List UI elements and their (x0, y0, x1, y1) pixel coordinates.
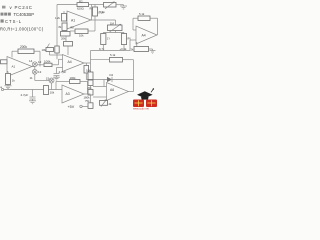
resistor R2 620 (feedback of top op-amp) (57, 0, 95, 20)
input resistor (left edge, inverting input of A1) (1, 60, 8, 64)
wires to A6 inputs (93, 87, 107, 98)
svg-text:v PC24C: v PC24C (10, 5, 33, 10)
resistor 1.2k (top op-amp - input) (55, 11, 67, 21)
op-amp A6 (bottom right) (107, 83, 134, 101)
divider chain labels 180k 75k (84, 95, 91, 102)
svg-text:13: 13 (38, 70, 42, 74)
resistor 5.1k (top right horizontal) (133, 12, 158, 35)
trimmer 2k (below A6) (100, 100, 113, 107)
ground (right of top trimmer) (116, 5, 127, 9)
wire A2 + input (124, 40, 137, 51)
svg-text:10k: 10k (50, 90, 55, 94)
svg-text:TC4053BP: TC4053BP (14, 12, 35, 17)
svg-text:www.ccdz.net: www.ccdz.net (133, 107, 149, 110)
watermark logo: red characters (133, 100, 157, 108)
resistor 10k (on bottom rail) (44, 86, 55, 95)
svg-text:5.1k: 5.1k (110, 53, 116, 57)
svg-text:12: 12 (38, 60, 42, 64)
svg-text:A6: A6 (110, 88, 114, 92)
svg-text:14: 14 (29, 59, 33, 63)
+5V supply label and terminal (68, 105, 89, 109)
vertical feed line (x57) (56, 5, 58, 47)
watermark logo: black cap (137, 88, 154, 99)
svg-text:1.2k: 1.2k (55, 16, 61, 20)
svg-text:+5V: +5V (68, 105, 75, 109)
svg-text:620Ω: 620Ω (77, 7, 84, 11)
analog switch 14 (29, 59, 42, 67)
resistor 10k (A5 output down) (84, 63, 89, 80)
divider chain resistor bottom (88, 95, 93, 108)
analog switch 13 (32, 67, 41, 75)
wire A3 output (84, 93, 91, 95)
svg-text:10k: 10k (42, 48, 47, 52)
svg-text:D4: D4 (110, 73, 114, 77)
resistor 20k second (series) (64, 36, 73, 55)
note line 3: CTS-L (1, 19, 23, 24)
wire A1 output (32, 66, 35, 68)
bottom rail of reference divider (91, 50, 125, 52)
wire to 1M trimmer (95, 20, 116, 25)
ground (below mid cap) (53, 76, 60, 80)
divider chain resistor 2k (88, 86, 93, 96)
resistor 1k (A1 + input to ground) (6, 74, 16, 85)
svg-text:5.1k: 5.1k (100, 10, 106, 14)
resistor 5.1k (middle) (91, 53, 134, 91)
divider chain resistor 10k (86, 68, 93, 79)
trimmer 1M (103, 21, 124, 32)
svg-text:A3: A3 (66, 92, 70, 96)
svg-text:10k: 10k (79, 33, 84, 37)
svg-text:75k: 75k (85, 99, 90, 103)
svg-text:4.7µF: 4.7µF (21, 93, 29, 97)
op-amp A5 (middle) (63, 55, 85, 72)
svg-text:1Y: 1Y (107, 38, 110, 41)
wire A1 + input (7, 72, 8, 74)
op-amp A3 (bottom middle) (62, 85, 84, 103)
svg-text:20k: 20k (61, 36, 66, 40)
svg-text:15: 15 (46, 77, 50, 81)
resistor 100k (to A5 input) (37, 59, 62, 66)
diode D4 (feedback line) (86, 73, 133, 87)
note line 1: sensor type PC24C (2, 5, 33, 10)
svg-text:11: 11 (30, 76, 33, 80)
svg-text:A4: A4 (142, 34, 146, 38)
divider chain resistor 20k (87, 80, 93, 90)
capacitor 4.7uF (mid) (54, 70, 67, 76)
op-amp A1 (top middle) (67, 11, 91, 29)
op-amp A2 (top right) (136, 26, 157, 44)
resistor 2k (below A2) (131, 47, 153, 52)
resistor 8k (top op-amp + input) (59, 23, 68, 31)
svg-text:A1: A1 (12, 65, 16, 69)
note line 2: device TC4053BP (1, 12, 35, 17)
trimmer 10k (left of A5) (42, 44, 63, 56)
resistor 20k (below top op-amp) (61, 31, 71, 41)
svg-text:A1: A1 (71, 18, 75, 22)
trimmer 5.1k (top right) (95, 2, 116, 14)
wire A5 output (84, 51, 91, 73)
svg-text:4.7µF: 4.7µF (59, 70, 67, 74)
ground (below 1k) (5, 85, 12, 89)
ground (below bottom cap) (29, 99, 36, 104)
svg-text:R0,Rt=1.000(100°C): R0,Rt=1.000(100°C) (0, 26, 44, 31)
resistor (x57 series) (55, 46, 59, 59)
op-amp A1 (7, 57, 32, 77)
resistor 9.7k (left vertical) (99, 33, 110, 51)
resistor 0.1k (vertical near output) (93, 5, 105, 21)
ground (right of 2k) (150, 49, 156, 54)
resistor 100k (A3 feedback) (56, 76, 88, 94)
svg-text:CTS-L: CTS-L (5, 19, 22, 24)
bottom rail (left, to A3) (0, 85, 62, 91)
svg-text:A4: A4 (68, 60, 72, 64)
resistor 0.5k (right vertical) (120, 33, 132, 51)
resistor 200k (feedback of A1) (12, 45, 40, 66)
resistor 10k under top op-amp output (70, 20, 95, 37)
wire A5 + input (57, 68, 63, 74)
capacitor 4.7uF (bottom left) (21, 90, 36, 100)
wire below switch 13 (30, 74, 50, 80)
analog switch 15 (46, 77, 54, 90)
